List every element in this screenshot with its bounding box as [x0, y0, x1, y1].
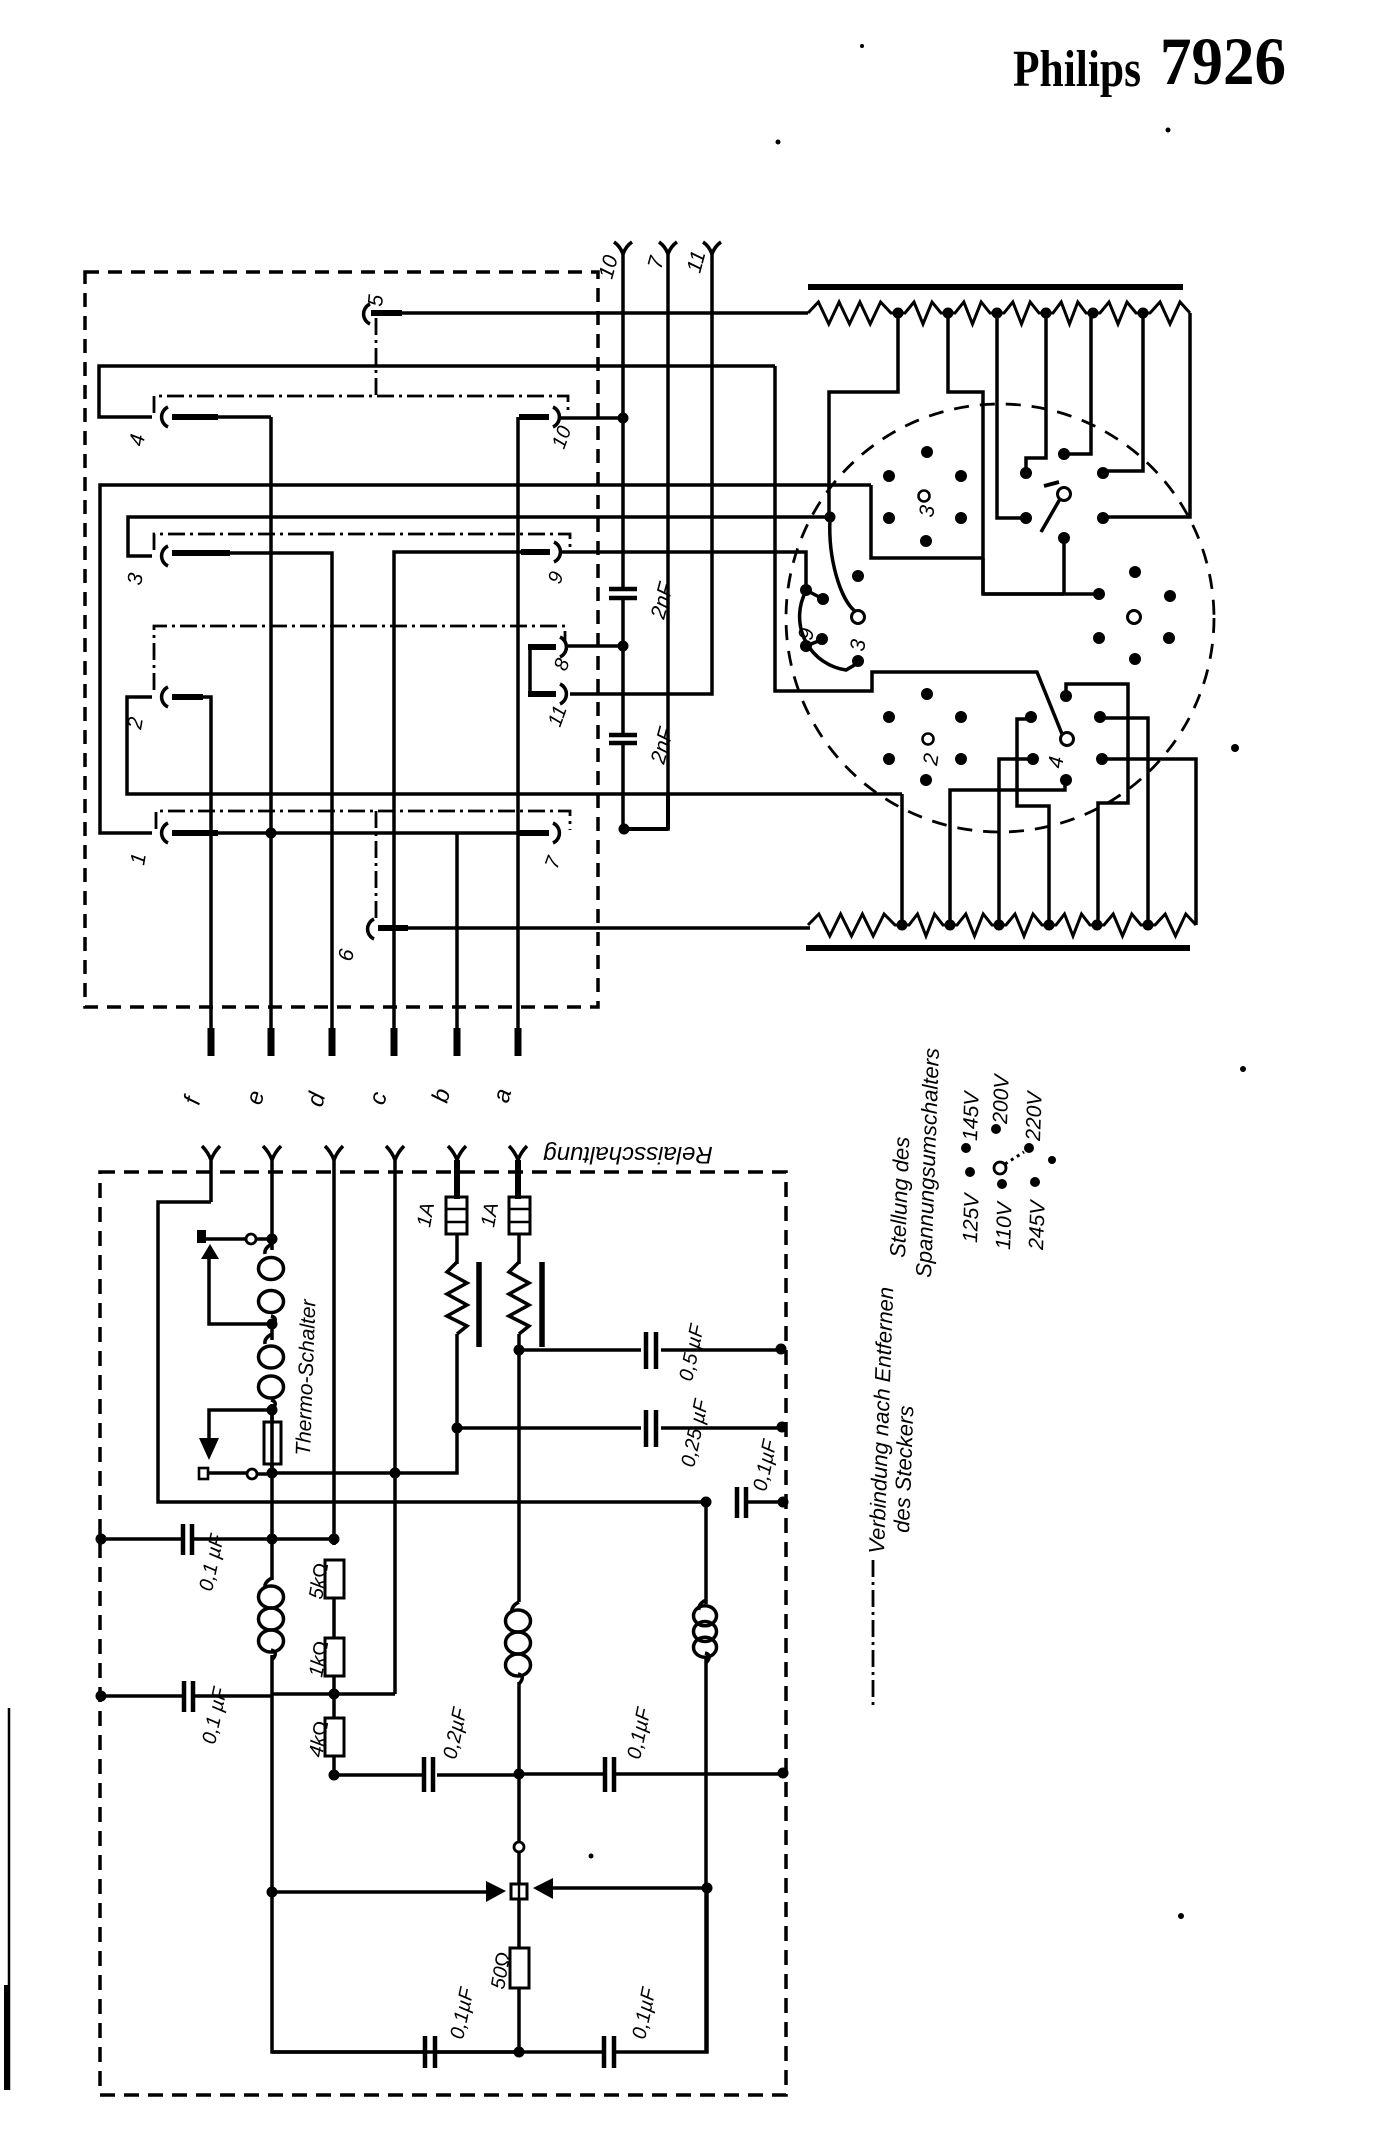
junction dot bottom chain 4	[1044, 920, 1055, 931]
scan speck 1	[860, 44, 864, 48]
wire e exit blob	[268, 1028, 275, 1056]
junction dot a / 0,2uF	[514, 1769, 525, 1780]
svg-text:0,1µF: 0,1µF	[623, 1704, 656, 1761]
contact8/11 left bracket	[528, 647, 532, 694]
junction dot wire e / y833	[266, 828, 277, 839]
switch 1 contact dots	[1058, 448, 1070, 460]
svg-text:11: 11	[544, 703, 572, 730]
svg-text:1A: 1A	[413, 1201, 439, 1229]
junction dot x707 / drive	[702, 1883, 713, 1894]
wire: contact3 stub corner down = wire d	[228, 553, 332, 1048]
test line 10 vertical	[621, 252, 625, 829]
capacitor 2nF lower plates	[609, 735, 637, 743]
resistor 50ohm	[510, 1948, 529, 1988]
svg-text:2nF: 2nF	[646, 579, 678, 622]
border junction dot 0,5uF	[776, 1344, 787, 1355]
selector arc cluster: arc	[800, 591, 858, 670]
coil on wire a	[512, 1602, 519, 1612]
relay lower armature link	[209, 1410, 272, 1440]
contact 6	[368, 919, 374, 939]
relay circuit dashed box	[100, 1172, 786, 2095]
contact 10	[553, 407, 559, 427]
contact 2	[162, 687, 168, 707]
svg-text:des Steckers: des Steckers	[889, 1405, 918, 1533]
contact 8	[560, 637, 566, 657]
arc cluster dots	[852, 570, 864, 582]
bottom chain dot3 up right to 4o LL dot	[999, 759, 1028, 925]
junction dot f-wire / 0,1uF branch	[701, 1497, 712, 1508]
wire 4o LR to chain right end vertical	[1102, 759, 1196, 925]
junction dot top chain 2	[943, 308, 954, 319]
junction dot wire b / 0,25uF	[452, 1423, 463, 1434]
svg-text:0,1µF: 0,1µF	[446, 1984, 479, 2041]
svg-text:3: 3	[915, 504, 939, 519]
wire e vertical (contact4 down to exit)	[269, 417, 273, 1048]
wire: contact6 to bottom resistor chain	[406, 926, 810, 930]
ballast resistor (wire b) zigzag	[447, 1262, 467, 1334]
svg-text:9: 9	[544, 569, 568, 587]
border junction dot 0,25uF	[777, 1422, 788, 1433]
top bus bar	[808, 284, 1183, 290]
wire relay top contact to coil	[256, 1237, 272, 1241]
wire contact4 drop x775 shelf to switch4 pivot arm	[775, 366, 1062, 734]
arc cluster arm	[830, 519, 856, 612]
junction dot top chain 3	[992, 308, 1003, 319]
svg-text:f: f	[179, 1092, 207, 1108]
Y contact wire c	[386, 1146, 404, 1160]
vibrator right drive wire	[551, 1886, 707, 1890]
wire: line7/line10 bottom link to long wire y=794	[628, 794, 668, 829]
capacitor 2nF upper plates	[609, 589, 637, 598]
right middle group dots	[1129, 566, 1141, 578]
junction dot e / drive	[267, 1887, 278, 1898]
svg-text:7926: 7926	[1160, 23, 1286, 99]
wire chain3 down to switch1 LL	[997, 313, 1021, 518]
junction dot bottom chain 5	[1092, 920, 1103, 931]
wire: contact2 left bracket x=127 down to long wire y=794	[127, 697, 902, 794]
wire a fuse to resistor	[517, 1234, 521, 1264]
wire: y=833 from stub to contact 7, corner of wire b	[216, 833, 540, 1048]
contact10 stub	[519, 414, 549, 420]
svg-text:7: 7	[644, 253, 670, 272]
junction dot below 1k	[329, 1689, 340, 1700]
svg-text:1kΩ: 1kΩ	[305, 1639, 333, 1679]
bottom chain dot5 up to 4o top dot	[1066, 684, 1128, 925]
wire: contact10 arc to line 10 junction	[561, 416, 623, 420]
relay resistor	[264, 1422, 281, 1464]
wire resistor to bottom contact	[270, 1410, 274, 1473]
wire 0,1uF f-branch to border	[746, 1500, 783, 1504]
Y contact wire e	[263, 1146, 281, 1160]
Y contact wire f	[202, 1146, 220, 1202]
svg-text:0,1µF: 0,1µF	[628, 1984, 661, 2041]
scan speck 6	[1240, 1066, 1246, 1072]
wire c vertical	[393, 1160, 397, 1694]
label 1 (switch)	[1044, 482, 1059, 486]
contact9 stub	[521, 549, 550, 555]
bottom rail left segments through cap	[272, 2050, 519, 2054]
svg-text:110V: 110V	[992, 1200, 1017, 1250]
resistor 5k	[325, 1560, 344, 1598]
left drive arrowhead	[486, 1881, 506, 1902]
wire: contact10 corner down = wire a top	[516, 417, 520, 1048]
selector switch dashed circle	[786, 404, 1214, 832]
fuse 1A (wire b)	[446, 1197, 467, 1234]
wire a resistor down	[517, 1334, 521, 1602]
svg-text:0,1 µF: 0,1 µF	[198, 1684, 232, 1746]
arc cluster stubs	[806, 590, 821, 646]
right drive arrowhead	[533, 1878, 553, 1899]
wire 0,2uF row	[334, 1773, 519, 1777]
wire chain6 down to switch1 UR	[1108, 313, 1143, 471]
title Philips 7926	[1013, 23, 1286, 99]
plug connector dashed box P1	[85, 272, 598, 1007]
junction dot relay mid	[267, 1319, 278, 1330]
bottom bus bar	[806, 945, 1190, 951]
relay coil 1	[265, 1244, 272, 1254]
svg-text:6: 6	[334, 947, 359, 963]
svg-text:3: 3	[846, 638, 870, 653]
contact 1	[162, 823, 168, 843]
legend voltage 200V	[991, 1124, 1001, 1134]
svg-text:8: 8	[550, 656, 574, 674]
junction dot below 4k	[329, 1770, 340, 1781]
contact4 stub	[172, 414, 218, 420]
wire: contact1 left bracket x=100 up to long wire y=485	[100, 485, 871, 833]
coil on wire e	[265, 1578, 272, 1588]
border junction dot 0,1uF a-branch	[778, 1768, 789, 1779]
wire 1k to 4k	[332, 1676, 336, 1718]
vibrator element	[511, 1884, 527, 1899]
svg-text:c: c	[364, 1089, 393, 1108]
wire d vertical	[332, 1160, 336, 1545]
contact11 stub	[528, 691, 556, 697]
svg-text:e: e	[241, 1088, 271, 1108]
fuse 1A (wire a)	[509, 1197, 530, 1234]
scan speck 5	[1048, 1156, 1056, 1164]
legend dash-dot sample line	[872, 1560, 875, 1706]
svg-text:4: 4	[1044, 755, 1068, 770]
ballast bar (wire b)	[476, 1262, 482, 1347]
scan speck 2	[1166, 128, 1171, 133]
svg-text:125V: 125V	[959, 1191, 984, 1243]
bottom chain dot4 up left up to 4o UL dot	[1017, 719, 1049, 925]
svg-text:Philips: Philips	[1013, 41, 1141, 98]
contact3 stub	[172, 550, 230, 556]
svg-text:145V: 145V	[959, 1089, 984, 1141]
scan artifact left edge lower	[4, 1985, 8, 2090]
wire circle to vibrator	[517, 1852, 521, 1884]
wire chain5 down to switch1 top	[1069, 313, 1091, 454]
ballast bar (wire a)	[539, 1262, 545, 1347]
svg-text:2: 2	[919, 752, 944, 768]
switch 1 arm	[1041, 499, 1060, 532]
wire e vertical through relay	[272, 1160, 520, 2052]
Y fork line 11	[703, 242, 721, 254]
right middle group pivot	[1128, 611, 1141, 624]
svg-text:3: 3	[123, 571, 148, 587]
wire: contact9 arc right to drop x=806	[562, 552, 806, 588]
ballast resistor (wire a) zigzag	[509, 1262, 529, 1334]
junction dot top chain 4	[1041, 308, 1052, 319]
label 2o	[923, 734, 934, 745]
junction dot contact3-wire / x829 vertical	[825, 512, 836, 523]
wire: contact8 arc to line10 junction	[568, 644, 623, 648]
svg-text:10: 10	[548, 423, 576, 451]
label 3o	[919, 491, 930, 502]
wire bottom flag to contact	[208, 1471, 247, 1475]
wire bottom contact	[257, 1472, 267, 1476]
svg-text:Relaisschaltung: Relaisschaltung	[543, 1141, 713, 1168]
capacitor 0,1uF A plates (left)	[183, 1524, 192, 1555]
svg-text:4: 4	[125, 432, 150, 448]
wire: contact4 left bracket going up and right (to x=775 drop)	[99, 366, 775, 417]
bottom chain dot6 up to 4o UR dot	[1105, 718, 1148, 925]
Y contact wire d	[325, 1146, 343, 1160]
relay bottom contact circle	[247, 1469, 257, 1479]
bottom chain dot2 up right to 4o bottom dot	[950, 780, 1065, 925]
contact8 stub	[528, 644, 556, 650]
junction dot top chain 1	[893, 308, 904, 319]
border dot left 0,1uF B	[96, 1691, 107, 1702]
wire vibrator to 50ohm	[517, 1899, 521, 1948]
relay coil 2	[265, 1334, 272, 1344]
scan speck 4	[1231, 744, 1239, 752]
vibrator contact circle	[514, 1842, 524, 1852]
wire 4k bottom	[332, 1756, 336, 1775]
Y fork line 10	[614, 242, 632, 254]
wire a exit blob	[515, 1028, 522, 1056]
group 4o dots	[1060, 690, 1072, 702]
wire 50ohm to bottom rail	[517, 1988, 521, 2052]
relay armature triangle	[201, 1244, 219, 1259]
svg-text:220V: 220V	[1022, 1089, 1047, 1142]
wire 0,1uF B row	[101, 1694, 272, 1698]
capacitor 0,25uF plates	[646, 1410, 656, 1447]
group 3o dots	[921, 446, 933, 458]
svg-text:0,1µF: 0,1µF	[749, 1436, 782, 1493]
junction dot line10/line7 bottom	[619, 824, 630, 835]
wire chain4 down to switch1 UL	[1026, 313, 1046, 468]
svg-text:0,5 µF: 0,5 µF	[675, 1321, 709, 1383]
svg-text:200V: 200V	[989, 1072, 1014, 1125]
contact 4	[162, 407, 168, 427]
scan speck 8	[589, 1854, 594, 1859]
wire f inside relay box: left bypass	[158, 1202, 706, 1502]
wire b exit blob	[454, 1028, 461, 1056]
junction dot relay coil bottom	[267, 1405, 278, 1416]
junction dot bottom chain 3	[994, 920, 1005, 931]
dash-dot link contact4 to contact10	[154, 396, 568, 413]
bottom rail right segment	[519, 1888, 707, 2052]
capacitor 0,2uF plates	[424, 1757, 433, 1792]
dash-dot link contact2 to contact8	[154, 626, 565, 690]
capacitor 0,1uF bottom-left plates	[425, 2036, 435, 2068]
legend voltage 145V	[961, 1143, 971, 1153]
junction dot wire c / relay bottom wire	[390, 1468, 401, 1479]
contact 9	[554, 542, 560, 562]
resistor chain top (voltage selector taps)	[808, 302, 1190, 324]
capacitor 0,1uF a-branch plates	[605, 1757, 614, 1792]
wire b resistor to junction	[276, 1334, 457, 1473]
wire b thick lead	[454, 1160, 460, 1199]
wire chain2 step down to junction T	[948, 313, 1094, 594]
svg-text:5: 5	[364, 293, 388, 307]
svg-text:9: 9	[794, 626, 819, 642]
wire a coil to vibrator	[517, 1682, 521, 1842]
Y contact wire b	[448, 1146, 466, 1160]
svg-text:245V: 245V	[1025, 1198, 1050, 1251]
junction dot bottom rail / a	[514, 2047, 525, 2058]
test line 7 vertical	[628, 252, 668, 829]
contact 3	[162, 546, 168, 566]
relay lower arrow	[199, 1438, 219, 1460]
resistor 1k	[325, 1638, 344, 1676]
wire f exit blob	[208, 1028, 215, 1056]
contact 11	[560, 684, 566, 704]
svg-text:a: a	[488, 1086, 518, 1106]
junction dot e / 0,1uF A	[267, 1534, 278, 1545]
wire: contact3 left bracket up to long wire y=517 ending at dot x=829	[128, 517, 830, 556]
svg-text:11: 11	[683, 248, 711, 275]
contact7 stub	[519, 830, 549, 836]
junction dot bottom chain 6	[1143, 920, 1154, 931]
wire c exit blob	[391, 1028, 398, 1056]
junction dot line10/contact8	[618, 641, 629, 652]
wire 0,1uF A row	[101, 1537, 334, 1541]
contact 7	[553, 823, 559, 843]
wire y594 to switch1 bottom	[983, 592, 1064, 596]
relay top contact wire to flag	[206, 1237, 246, 1241]
Y contact wire a	[509, 1146, 527, 1160]
svg-text:0,25 µF: 0,25 µF	[677, 1396, 713, 1469]
junction dot top chain 5	[1088, 308, 1099, 319]
svg-text:b: b	[427, 1086, 457, 1106]
border junction dot 0,1uF f	[778, 1497, 789, 1508]
svg-text:d: d	[302, 1089, 332, 1110]
capacitor 0,1uF B plates (left)	[184, 1681, 193, 1712]
svg-text:2nF: 2nF	[646, 724, 678, 767]
x707 branch vertical with coil	[704, 1502, 708, 2052]
wire y1694 coil-e to wire c	[272, 1692, 395, 1696]
contact2 stub corner down = wire f	[172, 697, 211, 1048]
junction dot wire a / 0,5uF	[514, 1345, 525, 1356]
relay top flag	[197, 1230, 206, 1243]
contact1 stub	[172, 830, 218, 836]
label 4o / pivot	[1061, 733, 1074, 746]
legend switch knob	[994, 1162, 1006, 1174]
bottom chain dot1 up to long wire y=794 from contact2	[900, 794, 904, 925]
wire chain1 down to x829 vertical	[829, 313, 898, 519]
svg-text:Thermo-Schalter: Thermo-Schalter	[292, 1298, 320, 1456]
test line 11 vertical = contact 11 wire	[570, 252, 712, 694]
junction dot top chain 6	[1138, 308, 1149, 319]
wire switch1 bottom dot down to shelf	[1062, 538, 1066, 594]
svg-text:Stellung des: Stellung des	[885, 1136, 914, 1258]
wire chain right end down to switch1 LR	[1108, 313, 1190, 517]
relay armature link	[209, 1258, 272, 1324]
wire d 5k to 1k	[332, 1598, 336, 1638]
resistor 4k	[325, 1718, 344, 1756]
dash-dot link contact5 to 4-10 link	[375, 318, 378, 396]
coil on x707 branch	[699, 1600, 706, 1610]
wire: contact9 corner = wire c	[394, 552, 536, 1048]
arc cluster pivot	[852, 611, 865, 624]
capacitor 0,1uF (f branch) plates	[737, 1487, 746, 1518]
wire 0,1uF a-branch row	[519, 1772, 783, 1776]
svg-text:Spannungsumschalters: Spannungsumschalters	[911, 1048, 944, 1279]
scan speck 3	[776, 140, 781, 145]
svg-text:7: 7	[541, 853, 566, 872]
wire: contact4 stub to wire e corner	[216, 415, 271, 419]
wire b fuse to resistor	[455, 1234, 459, 1264]
switch 1 pivot	[1058, 488, 1071, 501]
capacitor 0,1uF bottom-right plates	[604, 2036, 614, 2068]
wire 0,5uF to border	[519, 1348, 781, 1352]
wire y=483 contact1 step corner	[981, 558, 985, 594]
svg-text:5kΩ: 5kΩ	[305, 1561, 333, 1601]
wire a thick lead	[515, 1160, 521, 1199]
Y fork line 7	[659, 242, 677, 254]
bottom resistor chain	[808, 914, 1196, 936]
svg-text:0,2µF: 0,2µF	[439, 1704, 472, 1761]
group 2o dots	[883, 711, 895, 723]
dash-dot link contact3 to contact9	[154, 534, 570, 550]
vibrator left drive wire	[272, 1890, 488, 1894]
svg-text:10: 10	[595, 252, 623, 281]
scan speck 7	[1178, 1913, 1184, 1919]
wire: contact5 stub to top resistor chain	[371, 311, 808, 315]
wire d exit blob	[329, 1028, 336, 1056]
junction dot bottom chain 1	[897, 920, 908, 931]
contact6 stub	[378, 925, 408, 931]
svg-text:1A: 1A	[477, 1201, 503, 1229]
capacitor 0,5uF plates	[646, 1332, 656, 1369]
wire 0,25uF to border	[457, 1426, 782, 1430]
svg-text:1: 1	[126, 851, 151, 867]
relay bottom flag	[199, 1468, 208, 1479]
dash-dot link contact1 to contact7 with T to contact6	[156, 811, 570, 920]
junction dot bottom chain 2	[945, 920, 956, 931]
legend voltage 220V	[1024, 1143, 1034, 1153]
relay bottom contact dot	[267, 1468, 278, 1479]
contact 5	[364, 304, 370, 324]
junction dot d / 0,1uF A	[329, 1534, 340, 1545]
svg-text:4kΩ: 4kΩ	[305, 1719, 333, 1759]
PART2	[96, 1141, 789, 2095]
relay top contact circle	[246, 1234, 256, 1244]
junction dot line10/contact10	[618, 413, 629, 424]
border dot left 0,1uF A	[96, 1534, 107, 1545]
junction dot relay coil top	[267, 1234, 278, 1245]
wire contact1 long wire step to RM UL dot	[871, 485, 983, 558]
scan artifact left edge line	[8, 1708, 11, 2090]
